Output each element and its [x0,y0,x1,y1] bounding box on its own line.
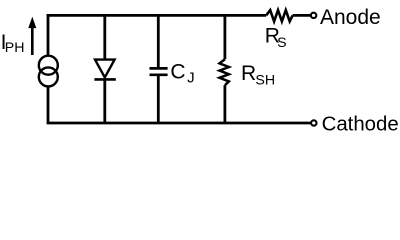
capacitor CJ [150,14,168,123]
cathode terminal [311,120,316,125]
current direction arrow [28,17,36,55]
current source IPH [39,14,58,123]
svg-text:RS: RS [265,25,287,52]
svg-text:Cathode: Cathode [322,114,399,136]
wire bottom rail [47,122,311,125]
anode terminal [311,13,316,18]
wire RS to anode terminal [293,14,311,17]
svg-text:CJ: CJ [170,61,194,87]
svg-text:Anode: Anode [320,6,381,29]
resistor RS [266,10,292,21]
resistor RSH [220,14,229,123]
wire top rail [47,14,267,17]
diode D1 [94,14,115,123]
svg-text:RSH: RSH [241,62,275,88]
svg-text:IPH: IPH [1,31,25,56]
